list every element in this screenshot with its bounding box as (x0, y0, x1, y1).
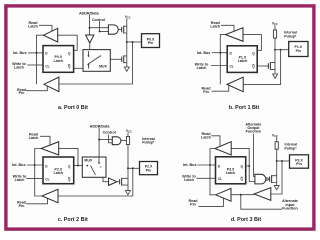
svg-text:Int. Bus: Int. Bus (197, 51, 211, 55)
svg-text:Control: Control (103, 131, 116, 135)
svg-text:Int. Bus: Int. Bus (12, 163, 26, 167)
svg-text:b. Port 1 Bit: b. Port 1 Bit (229, 105, 259, 111)
svg-text:d. Port 3 Bit: d. Port 3 Bit (231, 217, 261, 223)
svg-text:InternalPullup*: InternalPullup* (285, 143, 298, 151)
svg-text:MUX: MUX (99, 65, 107, 69)
svg-text:ReadLatch: ReadLatch (29, 132, 40, 140)
svg-text:MUX: MUX (84, 159, 92, 163)
svg-text:AlternateOutputFunction: AlternateOutputFunction (245, 122, 262, 133)
svg-text:VCC: VCC (272, 21, 278, 25)
svg-text:Int. Bus: Int. Bus (183, 163, 197, 167)
svg-text:CL: CL (45, 177, 49, 181)
svg-text:VCC: VCC (125, 15, 131, 19)
svg-text:ADDR/Data: ADDR/Data (90, 124, 111, 128)
svg-text:a. Port 0 Bit: a. Port 0 Bit (58, 105, 88, 111)
svg-text:VCC: VCC (272, 134, 278, 138)
svg-text:ReadLatch: ReadLatch (201, 132, 212, 140)
svg-text:P1.XLatch: P1.XLatch (238, 55, 247, 63)
svg-text:CL: CL (218, 177, 222, 181)
svg-text:CL: CL (230, 65, 234, 69)
svg-text:InternalPullup*: InternalPullup* (142, 137, 155, 145)
svg-text:c. Port 2 Bit: c. Port 2 Bit (58, 217, 88, 223)
svg-text:ReadLatch: ReadLatch (28, 21, 39, 29)
svg-text:P0.XLatch: P0.XLatch (54, 55, 63, 63)
svg-text:P3.XLatch: P3.XLatch (226, 167, 235, 175)
svg-text:ReadLatch: ReadLatch (210, 21, 221, 29)
svg-text:CL: CL (45, 65, 49, 69)
svg-text:Int. Bus: Int. Bus (13, 51, 27, 55)
svg-text:P2.XLatch: P2.XLatch (54, 168, 63, 176)
svg-text:ADDR/Data: ADDR/Data (79, 11, 100, 15)
svg-text:InternalPullup*: InternalPullup* (284, 31, 297, 39)
svg-text:Control: Control (92, 18, 105, 22)
svg-text:VCC: VCC (126, 129, 132, 133)
